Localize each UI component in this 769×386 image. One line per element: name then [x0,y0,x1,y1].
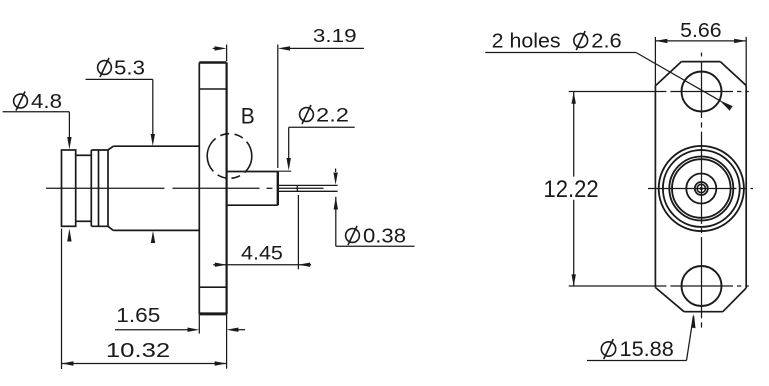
svg-text:1.65: 1.65 [116,305,160,327]
svg-text:12.22: 12.22 [544,176,599,203]
svg-text:2 holes: 2 holes [492,30,561,52]
svg-text:5.66: 5.66 [680,20,721,42]
svg-text:0.38: 0.38 [363,225,406,247]
svg-text:B: B [241,103,255,128]
svg-text:10.32: 10.32 [106,340,170,362]
svg-text:5.3: 5.3 [114,58,145,80]
svg-text:3.19: 3.19 [313,26,357,46]
svg-text:4.45: 4.45 [241,244,283,265]
svg-text:15.88: 15.88 [620,338,674,361]
svg-text:2.2: 2.2 [316,105,349,126]
svg-text:4.8: 4.8 [31,91,62,113]
svg-text:2.6: 2.6 [591,30,621,52]
